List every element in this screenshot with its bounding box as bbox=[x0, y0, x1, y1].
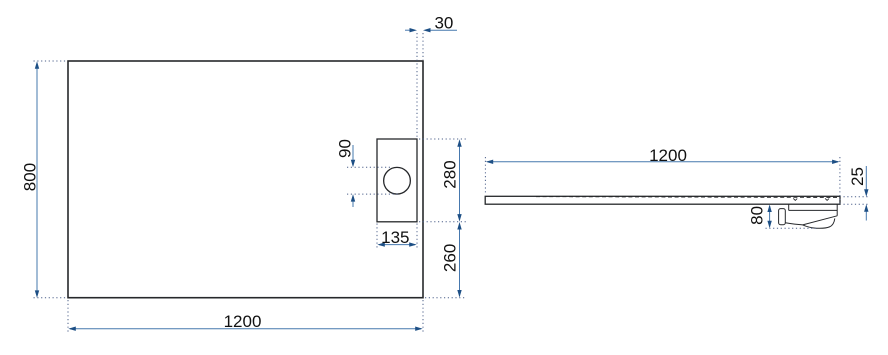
dimension 1200 bottom line bbox=[68, 327, 422, 331]
trap neck left edge bbox=[788, 204, 790, 210]
dimension 1200 bottom extension lines bbox=[68, 300, 423, 333]
svg-text:135: 135 bbox=[381, 228, 409, 247]
trap right edge bbox=[836, 204, 838, 216]
dimension 135 line bbox=[377, 242, 416, 246]
dimension 280 line bbox=[457, 139, 461, 221]
svg-text:800: 800 bbox=[20, 163, 39, 191]
dimension 25 line bbox=[864, 166, 868, 221]
svg-text:80: 80 bbox=[748, 206, 767, 225]
svg-text:1200: 1200 bbox=[649, 146, 687, 165]
dimension 135 extension lines bbox=[377, 224, 417, 250]
svg-text:90: 90 bbox=[335, 139, 354, 158]
weep notch right bbox=[825, 198, 829, 200]
dimension 90 line bbox=[351, 145, 355, 207]
drain box bbox=[377, 139, 417, 222]
trap body top bbox=[789, 209, 838, 211]
tray top view outline bbox=[68, 61, 423, 298]
side view slab top dashed surface line bbox=[536, 196, 838, 199]
dimension 90 extension lines bbox=[347, 167, 399, 194]
svg-text:280: 280 bbox=[441, 160, 460, 188]
dimension 30 line bbox=[405, 28, 457, 32]
dimension 30 extension lines bbox=[417, 33, 423, 139]
svg-text:25: 25 bbox=[848, 167, 867, 186]
dimension 1200 side extension lines bbox=[485, 157, 840, 205]
trap bottom sweep bbox=[785, 216, 837, 225]
dimension 80 line bbox=[767, 205, 771, 229]
trap bowl lobe bbox=[803, 218, 835, 228]
dimension 260 line bbox=[457, 222, 461, 298]
svg-text:260: 260 bbox=[441, 244, 460, 272]
svg-text:1200: 1200 bbox=[224, 312, 262, 331]
dimension 800 line bbox=[35, 61, 39, 298]
dimension 25 extension lines bbox=[844, 197, 871, 205]
dimension 80 extension line bbox=[766, 227, 818, 229]
dimension 800 extension lines bbox=[34, 61, 67, 298]
dimension 1200 side line bbox=[486, 160, 840, 164]
dimension 280/260 extension lines bbox=[419, 139, 466, 298]
trap outlet cap bbox=[779, 209, 786, 225]
drain circle bbox=[384, 167, 411, 194]
svg-text:30: 30 bbox=[434, 14, 453, 33]
side view slab bbox=[485, 196, 840, 204]
weep notch left bbox=[793, 198, 797, 200]
